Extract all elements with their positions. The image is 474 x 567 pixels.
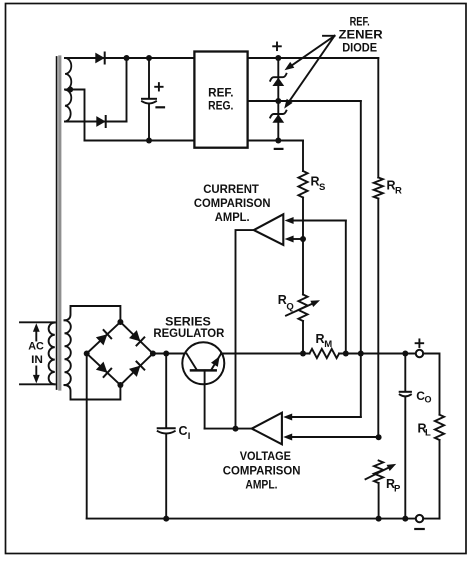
wire W2 bottom to bridge	[65, 385, 121, 400]
node bridge bottom	[117, 382, 123, 388]
wire U1 bottom output (-)	[248, 140, 303, 142]
label CO	[416, 389, 431, 405]
label RR	[387, 178, 403, 196]
svg-text:I: I	[188, 431, 191, 442]
op-amp U2 current comparison	[254, 214, 283, 245]
leader arrow to ZD1	[285, 36, 335, 71]
winding W1 (reference secondary, center-tapped)	[65, 58, 71, 122]
resistor RM	[310, 349, 340, 358]
leader arrow to ZD2	[284, 36, 334, 109]
wire D2 up to top rail	[126, 58, 128, 122]
svg-text:S: S	[319, 182, 325, 193]
wire plus terminal to RL	[423, 354, 439, 415]
svg-text:P: P	[394, 483, 401, 494]
AC IN arrow down	[33, 367, 40, 384]
svg-text:IN: IN	[31, 354, 43, 366]
svg-text:M: M	[324, 339, 332, 350]
node RR RP divider tap	[376, 434, 382, 440]
svg-text:R: R	[395, 186, 402, 197]
diode D1	[95, 53, 127, 64]
terminal minus	[415, 515, 423, 529]
diode D4 (bridge upper-right)	[120, 322, 152, 354]
svg-text:REG.: REG.	[208, 101, 233, 113]
node CO bottom	[402, 516, 408, 522]
svg-text:O: O	[425, 395, 432, 405]
node RQ bottom	[300, 351, 306, 357]
zener diode ZD2	[270, 101, 286, 141]
node center tap	[67, 87, 73, 93]
resistor RS	[298, 141, 307, 295]
wire main output line left	[153, 353, 186, 355]
svg-text:C: C	[179, 424, 188, 438]
wire U2 output	[236, 230, 254, 429]
wire center tap	[65, 90, 85, 141]
label RS	[311, 175, 326, 193]
svg-text:REF.: REF.	[350, 17, 370, 29]
label plus at zener top	[273, 43, 281, 51]
wire W1 top to diode D1	[65, 57, 95, 59]
node C1 bottom	[146, 138, 152, 144]
node U2 input1 tap	[343, 351, 349, 357]
winding W3 (primary)	[49, 323, 55, 385]
wire U2 input 2	[285, 236, 303, 243]
winding W2 (main secondary)	[65, 320, 71, 385]
wire minus terminal to RL bottom	[423, 518, 439, 520]
wire AC bottom lead	[20, 383, 55, 385]
diode D5 (bridge lower-left)	[87, 354, 121, 386]
label SERIES REGULATOR	[153, 316, 225, 340]
wire AC top lead	[20, 321, 55, 323]
svg-text:R: R	[316, 332, 325, 346]
node RS column input 2	[300, 236, 306, 242]
label CURRENT COMPARISON AMPL.	[194, 184, 271, 224]
wire U2 input 1	[285, 217, 346, 224]
svg-text:Q: Q	[286, 302, 293, 313]
svg-text:SERIES: SERIES	[165, 316, 211, 328]
label RM	[316, 332, 333, 350]
node D2-D1 junction	[124, 55, 130, 61]
node bridge right	[150, 351, 156, 357]
transistor Q1 series regulator	[182, 342, 224, 428]
diode D6 (bridge lower-right)	[120, 354, 152, 386]
node CI bottom	[163, 516, 169, 522]
wire RM to terminal	[339, 353, 416, 355]
label C1 plus	[155, 83, 162, 90]
variable resistor RP	[366, 461, 397, 519]
node RP bottom	[376, 516, 382, 522]
block U1 REF. REG.	[194, 52, 247, 148]
svg-text:COMPARISON: COMPARISON	[223, 466, 301, 478]
wire W2 top to bridge	[65, 306, 121, 322]
variable resistor RQ	[286, 295, 320, 354]
wire D1 output to cap junction	[127, 57, 195, 59]
svg-text:ZENER: ZENER	[339, 30, 384, 42]
wire U2 input 1 vertical	[345, 221, 347, 354]
wire U3 input 1	[283, 414, 361, 421]
node zener top	[275, 55, 281, 61]
label C1 minus	[157, 106, 165, 108]
label VOLTAGE COMPARISON AMPL.	[223, 451, 301, 492]
diode D2	[96, 116, 127, 127]
label REF. ZENER DIODE	[339, 17, 384, 55]
op-amp U3 voltage comparison	[252, 413, 282, 445]
capacitor CI	[158, 354, 175, 519]
wire main output line to plus terminal	[221, 353, 309, 355]
terminal plus	[416, 339, 424, 357]
resistor RR	[374, 58, 383, 437]
node reference line crossing	[358, 351, 364, 357]
label AC IN	[28, 341, 44, 367]
label RL	[418, 422, 432, 439]
node zener bottom	[275, 138, 281, 144]
svg-text:DIODE: DIODE	[342, 42, 377, 54]
AC IN arrow up	[33, 323, 40, 340]
svg-text:CURRENT: CURRENT	[203, 184, 259, 196]
label minus at zener bottom	[275, 148, 283, 150]
svg-text:R: R	[278, 293, 287, 307]
label RQ	[278, 293, 294, 313]
label RP	[386, 477, 401, 494]
diode D3 (bridge upper-left)	[87, 322, 121, 354]
svg-text:REGULATOR: REGULATOR	[153, 328, 225, 340]
wire W1 bottom to diode D2	[65, 121, 96, 123]
label CI	[179, 424, 191, 442]
zener diode ZD1	[270, 58, 286, 101]
wire U3 input 2	[283, 434, 378, 441]
svg-text:VOLTAGE: VOLTAGE	[240, 451, 292, 463]
transformer core	[57, 57, 60, 389]
svg-text:COMPARISON: COMPARISON	[194, 198, 271, 210]
node op-amp outputs join	[233, 426, 239, 432]
capacitor C1 (reference filter)	[142, 58, 156, 141]
wire zener mid reference down	[360, 101, 362, 417]
svg-text:L: L	[425, 427, 431, 438]
node C1 top	[146, 55, 152, 61]
svg-text:AMPL.: AMPL.	[245, 480, 277, 492]
wire bridge left to bottom rail	[86, 354, 88, 519]
node zener middle	[275, 98, 281, 104]
resistor RL	[435, 415, 444, 519]
svg-text:REF.: REF.	[208, 87, 233, 99]
node CO tap	[402, 351, 408, 357]
node bridge top	[117, 319, 123, 325]
wire U1 middle output	[248, 100, 361, 102]
wire U1 top output (+)	[248, 57, 379, 59]
node CI tap	[163, 351, 169, 357]
wire minus rail to REF REG	[85, 140, 195, 142]
wire base drive	[205, 428, 252, 430]
wire bottom rail	[87, 518, 416, 520]
svg-text:AMPL.: AMPL.	[215, 212, 250, 224]
capacitor CO	[400, 354, 411, 519]
node bridge left	[84, 351, 90, 357]
svg-text:AC: AC	[28, 341, 44, 353]
